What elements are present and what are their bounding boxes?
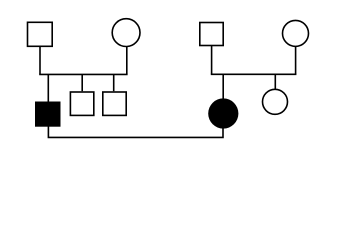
wire: marriage line between II-1 and II-4 <box>48 127 223 138</box>
male I-3 (unaffected square, right family father) <box>200 23 223 46</box>
wire: drop line from I-1 <box>39 47 41 74</box>
wire: drop line to II-2 <box>81 74 83 91</box>
male I-1 (unaffected square, left family father) <box>28 22 53 46</box>
wire: drop line from I-2 <box>126 46 128 74</box>
wire: right family sibship line <box>211 73 297 75</box>
wire: drop line to II-1 <box>47 74 49 101</box>
wire: drop line to II-4 <box>222 74 224 98</box>
male II-2 (unaffected square) <box>70 92 93 115</box>
female I-2 (unaffected circle, left family mother) <box>112 19 140 47</box>
female II-4 (affected, filled circle) <box>208 98 238 128</box>
wire: drop line from I-3 <box>211 46 213 75</box>
wire: drop line to II-5 <box>274 74 276 89</box>
female I-4 (unaffected circle, right family mother) <box>283 20 309 46</box>
wire: drop line to II-3 <box>113 74 115 91</box>
wire: drop line from I-4 <box>295 46 297 74</box>
female II-5 (unaffected circle) <box>263 89 288 114</box>
male II-3 (unaffected square) <box>103 92 126 115</box>
male II-1 (affected, filled square) <box>35 102 61 127</box>
wire: left family sibship line <box>39 73 127 75</box>
